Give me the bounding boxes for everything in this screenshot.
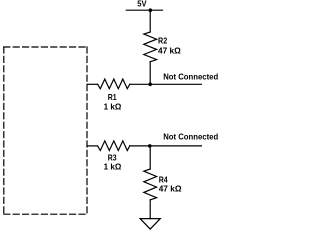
node junction dot R3/R4	[148, 144, 152, 148]
svg-text:R2: R2	[158, 36, 167, 46]
wire R2 to node	[149, 62, 151, 85]
svg-text:1 kΩ: 1 kΩ	[104, 162, 122, 172]
resistor R1 1k (horizontal)	[98, 79, 130, 89]
node junction dot R1/R2	[148, 83, 152, 87]
wire box to R1	[87, 83, 98, 85]
wire box to R3	[87, 145, 98, 147]
wire R3 to Not Connected stub (bottom)	[130, 145, 202, 147]
svg-text:1 kΩ: 1 kΩ	[104, 101, 122, 111]
resistor R2 47k (vertical)	[144, 32, 157, 62]
resistor R3 1k (horizontal)	[98, 141, 130, 151]
resistor R4 47k (vertical)	[144, 169, 157, 200]
svg-text:Not Connected: Not Connected	[163, 72, 218, 82]
wire R1 to Not Connected stub (top)	[130, 83, 202, 85]
dashed box (DUT)	[4, 47, 87, 214]
5V power rail	[126, 9, 162, 11]
svg-text:47 kΩ: 47 kΩ	[158, 45, 181, 55]
junction dot on 5V rail	[149, 8, 153, 12]
svg-text:5V: 5V	[137, 0, 147, 8]
wire 5V rail to R2	[149, 10, 151, 32]
wire R4 to ground	[149, 200, 151, 219]
wire node to R4	[149, 146, 151, 169]
ground symbol	[140, 219, 160, 230]
svg-text:Not Connected: Not Connected	[163, 132, 218, 142]
svg-text:47 kΩ: 47 kΩ	[159, 184, 182, 194]
